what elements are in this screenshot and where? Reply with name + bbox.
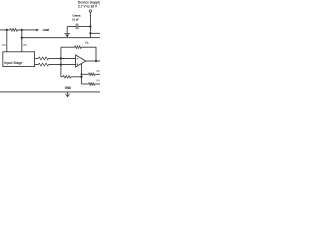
node: supply stub junction bbox=[89, 32, 91, 34]
resistor R2 (lower) bbox=[38, 63, 48, 66]
node: junction VIN+ bbox=[6, 29, 8, 31]
wire: cap branch right bbox=[78, 26, 90, 28]
wire: vertical feedback bus bbox=[60, 47, 62, 77]
wire: row2 left segment bbox=[81, 83, 88, 85]
wire: GND bus bbox=[0, 91, 100, 93]
wire: bus bottom to bias resistor bbox=[61, 76, 63, 78]
supply terminal circle bbox=[89, 10, 91, 12]
op-amp minus sign bbox=[77, 57, 79, 59]
wire: feedback top run bbox=[61, 46, 75, 48]
resistor RS (shunt) bbox=[10, 29, 18, 32]
wire: VIN- drop to input stage bbox=[21, 30, 23, 52]
svg-text:VA: VA bbox=[85, 40, 89, 44]
wire: upper output of input stage bbox=[35, 57, 39, 59]
wire: row1 left segment bbox=[81, 73, 88, 75]
resistor R1 (upper) bbox=[38, 57, 48, 60]
svg-text:VIN: VIN bbox=[2, 45, 6, 47]
svg-text:Load: Load bbox=[43, 28, 50, 32]
ground symbol (bus) bbox=[67, 92, 69, 94]
svg-text:R4: R4 bbox=[97, 80, 100, 82]
wire: R2 to op-amp non-inverting input bbox=[49, 64, 76, 66]
wire: top rail VIN left segment bbox=[0, 29, 10, 31]
wire: lower output of input stage bbox=[35, 64, 39, 66]
input stage box bbox=[3, 52, 35, 67]
wire: VIN+ drop to input stage bbox=[6, 30, 8, 52]
node: bus junction upper bbox=[60, 57, 62, 59]
node: row junction at drop bbox=[80, 76, 82, 78]
resistor R3 (row1) bbox=[89, 73, 95, 76]
wire: R3 to right edge bbox=[95, 73, 100, 75]
op-amp bbox=[76, 55, 86, 67]
node: row1 junction at drop top bbox=[81, 73, 83, 75]
resistor R5 (bias) bbox=[63, 76, 71, 79]
svg-text:VIN: VIN bbox=[23, 45, 27, 47]
node: bus junction lower bbox=[60, 63, 62, 65]
node: junction VIN- bbox=[21, 29, 23, 31]
wire: op-amp output bbox=[86, 60, 100, 62]
node: feedback-output junction bbox=[95, 60, 97, 62]
wire: R5 to rows junction bbox=[71, 76, 81, 78]
wire: stub to right edge bbox=[90, 32, 100, 34]
wire: cap ground drop bbox=[66, 27, 68, 34]
resistor RF (feedback) bbox=[75, 46, 82, 49]
wire: R4 to right edge bbox=[95, 83, 100, 85]
node: supply-cap junction bbox=[89, 25, 91, 27]
resistor R4 (row2) bbox=[89, 83, 95, 86]
svg-text:GND: GND bbox=[65, 86, 72, 90]
ground symbol (cap) bbox=[64, 33, 70, 35]
svg-text:2.7 V to 18 V: 2.7 V to 18 V bbox=[78, 5, 98, 9]
capacitor C1 plates bbox=[77, 24, 79, 30]
wire: shunt to load arrow bbox=[18, 29, 37, 31]
wire: feedback right leg bbox=[81, 47, 96, 61]
svg-text:0.1 µF: 0.1 µF bbox=[72, 17, 79, 21]
svg-text:Input Stage: Input Stage bbox=[4, 61, 22, 65]
node: junction mid rail bbox=[21, 37, 23, 39]
svg-text:R3: R3 bbox=[97, 71, 100, 73]
wire: mid rail to right edge bbox=[22, 37, 100, 39]
wire: R1 to op-amp inverting input bbox=[49, 57, 76, 59]
load arrow bbox=[36, 29, 39, 32]
wire: op-amp bottom drop bbox=[80, 64, 82, 84]
wire: supply drop to rail bbox=[89, 12, 91, 38]
wire: cap branch left bbox=[67, 26, 76, 28]
op-amp plus sign bbox=[77, 63, 79, 65]
